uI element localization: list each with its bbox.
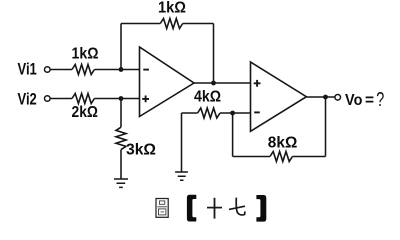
U2 non-inverting pin plus [254,80,261,87]
wire R6 to ground G1 [120,150,122,179]
resistor R3 1k feedback U1 [160,19,182,29]
svg-text:1kΩ: 1kΩ [72,46,99,63]
wire U1 feedback right vertical [213,24,215,84]
U2 inverting pin minus [254,111,260,113]
resistor R1 1k (Vi1 input) [72,65,94,75]
wire U2 feedback bottom right segment [292,156,325,158]
wire R4 ground branch [181,113,183,172]
ground G2 [175,172,188,180]
svg-text:3kΩ: 3kΩ [126,142,156,159]
wire R2 to U1 non-inverting input [94,98,139,100]
wire U2 feedback bottom left segment [233,156,270,158]
resistor R4 4k [198,108,220,118]
wire U2 feedback left vertical [232,113,234,157]
op-amp U1 [140,47,195,117]
caption glyph right black bracket [256,195,266,222]
wire Vi2 to R2 [50,98,72,100]
ground G1 [114,179,128,187]
caption glyph left black bracket [187,195,196,222]
node A junction (U1 inverting / feedback tap) [119,67,124,72]
node D junction (U2 inverting / feedback tap) [230,111,235,116]
svg-text:Vi2: Vi2 [18,91,37,109]
svg-text:4kΩ: 4kΩ [194,89,221,106]
resistor R2 2k (Vi2 input) [72,94,94,104]
svg-text:1kΩ: 1kΩ [158,0,186,17]
svg-text:8kΩ: 8kΩ [268,135,298,152]
wire R1 to U1 inverting input [94,69,139,71]
terminal Vo [335,95,341,101]
wire U1 output to U2 non-inverting input [194,82,251,84]
svg-text:?: ? [376,89,384,111]
svg-text:Vi1: Vi1 [18,61,37,79]
terminal Vi1 [45,67,51,73]
node E junction (U2 output / feedback) [323,95,328,100]
wire U2 output [306,96,335,98]
caption glyph shi (ten) [207,198,222,219]
caption glyph tu (figure) [156,199,168,218]
svg-text:=: = [365,92,374,109]
wire node B to R6 [120,99,122,128]
node B junction (U1 non-inverting / R6 tap) [119,96,124,101]
wire U2 feedback right vertical [325,97,327,157]
wire R4 to U2 inverting input [220,112,251,114]
svg-text:2kΩ: 2kΩ [72,104,99,121]
resistor R5 8k feedback U2 [270,152,292,162]
wire U1 feedback top left segment [121,23,160,25]
caption glyph qi (seven) [229,198,245,215]
U1 non-inverting pin plus [142,96,149,103]
svg-text:Vo: Vo [345,92,363,109]
resistor R6 3k [116,127,126,149]
wire U1 feedback left vertical [120,24,122,70]
wire Vi1 to R1 [50,69,72,71]
U1 inverting pin minus [143,69,149,71]
wire ground corner to R4 [182,112,198,114]
op-amp U2 [251,62,307,131]
node C junction (U1 output / feedback) [211,81,216,86]
wire U1 feedback top right segment [183,23,214,25]
terminal Vi2 [45,96,51,102]
